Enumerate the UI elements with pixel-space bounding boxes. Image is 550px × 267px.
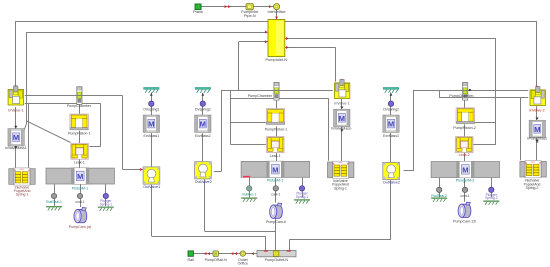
- wire y236 to outlet: [152, 236, 266, 238]
- svg-text:cont-1: cont-1: [460, 194, 469, 198]
- wire Rail to PumpORail: [193, 253, 213, 255]
- wire g3 plunger stub: [491, 178, 493, 187]
- wire OutValve2 down: [204, 179, 206, 231]
- wire group3 piston stack: [464, 100, 466, 107]
- svg-text:RodSeal-2: RodSeal-2: [431, 194, 447, 198]
- svg-text:OutValve1: OutValve1: [143, 185, 160, 189]
- mass PistonM-3 bar: [431, 161, 499, 178]
- wire inlet col3 vertical: [536, 106, 538, 120]
- valve OutValve3: [383, 162, 400, 179]
- svg-text:PumpPiston-1: PumpPiston-1: [68, 132, 91, 136]
- svg-text:InletOrifice: InletOrifice: [268, 10, 286, 14]
- svg-text:RodSeal-1: RodSeal-1: [46, 200, 62, 204]
- wire OutValve1 left stub: [123, 169, 143, 171]
- valve OutValve1: [143, 167, 160, 184]
- svg-text:Rubber-1: Rubber-1: [242, 193, 256, 197]
- arrow mass1 bottom: [14, 146, 17, 148]
- volume PumpOutlet-N: [257, 250, 296, 262]
- svg-text:PumpChamber: PumpChamber: [67, 104, 92, 108]
- wire group2 piston stack: [276, 100, 278, 108]
- wire drop x265.8: [265, 236, 267, 250]
- svg-text:OVspring2: OVspring2: [195, 108, 211, 112]
- wire chamber2 bus y90.2: [221, 90, 333, 92]
- valve InValve-3 (right, mirrored): [530, 87, 545, 106]
- mass InValveMass-3: [529, 120, 545, 137]
- wire y239.9 to outlet: [289, 239, 391, 241]
- arrow OutValve1: [150, 93, 153, 96]
- damper Rubber-1: [247, 186, 252, 191]
- piston PumpPiston-2: [266, 109, 284, 125]
- wire crossing chamber1: [76, 95, 82, 97]
- svg-text:cont-1: cont-1: [75, 200, 84, 204]
- pipe PumpORail-N: [205, 251, 228, 262]
- wire diagonal to Leak-1: [27, 121, 71, 143]
- cam PumpCam-120: [458, 202, 471, 217]
- volume PumpInlet-N: [265, 20, 287, 63]
- svg-text:Leak-1: Leak-1: [74, 160, 85, 164]
- arrow mass2 bottom: [340, 130, 343, 132]
- leak Leak-2: [267, 137, 284, 153]
- svg-text:PumpCam-ti: PumpCam-ti: [266, 220, 286, 224]
- contact cont-3: [462, 187, 467, 192]
- wire y231.5 to outlet: [205, 231, 276, 233]
- svg-text:OutValve2: OutValve2: [195, 180, 212, 184]
- wire g2 cam to outlet: [275, 218, 277, 232]
- wire vertical x495.9: [495, 39, 497, 145]
- wire g2 rod stub: [249, 178, 251, 186]
- junction dot: [469, 89, 471, 91]
- wire block right pin2: [285, 47, 336, 49]
- svg-text:PumpORail-N: PumpORail-N: [205, 258, 228, 262]
- ground g1c: [98, 207, 114, 211]
- wire vertical x335.7 to InValve-1m top: [335, 48, 337, 82]
- wire right drop to InValve-2r: [536, 21, 538, 89]
- svg-text:Spring-1: Spring-1: [16, 193, 29, 197]
- svg-text:cont-1: cont-1: [271, 193, 280, 197]
- wire g3 rod stub: [439, 178, 441, 187]
- spring PlungerSpring-3: [489, 187, 494, 192]
- wire inlet col2 vertical: [341, 99, 343, 109]
- contact cont-2: [273, 186, 278, 191]
- wire outlet col2 vertical: [202, 93, 204, 115]
- chamber PumpChamber-2: [274, 82, 279, 100]
- leak Leak-1: [71, 143, 88, 159]
- svg-text:PumpChamber: PumpChamber: [248, 94, 273, 98]
- piston PumpPiston-3: [456, 108, 474, 124]
- svg-text:Rail: Rail: [188, 258, 195, 262]
- svg-text:Spring-2: Spring-2: [485, 196, 498, 200]
- wire inlet col1 vertical: [15, 107, 17, 129]
- wire leak1 right stub: [89, 146, 100, 148]
- svg-text:InValve-2: InValve-2: [529, 108, 544, 112]
- valve OutValve2: [195, 162, 212, 179]
- wire g1 plunger stub: [105, 184, 107, 193]
- chamber PumpChamber-1: [77, 87, 82, 105]
- wire vertical x238.8: [238, 42, 240, 90]
- wire group1 lower bus y103.1: [25, 103, 101, 105]
- mass OutValve3-mass: [383, 115, 399, 132]
- svg-text:Ptank: Ptank: [193, 10, 203, 14]
- wire outlet col1 vertical: [151, 92, 153, 115]
- wire OutValve3 down: [390, 180, 392, 240]
- svg-text:PlungerM-2: PlungerM-2: [456, 179, 475, 183]
- spring PlungerSpring-2: [299, 186, 304, 191]
- cam PumpCam-b: [270, 203, 283, 218]
- wire to PumpPiston-2r right pin: [473, 122, 496, 124]
- ground g3c: [483, 201, 499, 205]
- arrow mass3 top: [536, 118, 539, 120]
- svg-text:PumpPiston-2: PumpPiston-2: [453, 126, 476, 130]
- wire g1 cont stub: [80, 184, 82, 193]
- svg-text:OVspring1: OVspring1: [143, 108, 159, 112]
- wire group1 suction bus y95.7: [25, 95, 123, 97]
- wire spring2 feed x328.3: [328, 98, 330, 161]
- wire spring1 feed x28.4: [28, 103, 30, 167]
- arrow mass2 top: [340, 107, 343, 109]
- wire to Leak-1m left pin: [231, 144, 266, 146]
- wire leak1 right loop vertical: [100, 103, 102, 147]
- wire PumpInletPipe to InletOrifice: [253, 6, 274, 8]
- svg-text:Spring-1: Spring-1: [334, 186, 347, 190]
- orifice InletOrifice: [268, 4, 286, 15]
- svg-text:PumpPiston-1: PumpPiston-1: [265, 128, 288, 132]
- svg-text:Leak-1: Leak-1: [270, 154, 281, 158]
- arrow mass1 bottom: [14, 146, 17, 148]
- svg-text:InValve-1: InValve-1: [8, 108, 23, 112]
- svg-text:Spring-1: Spring-1: [296, 195, 309, 199]
- wire chamber2 lower bus y98.2: [231, 98, 329, 100]
- wire g2 cont stub: [275, 178, 277, 186]
- wire spring3 feed x521: [520, 98, 522, 161]
- mass OutValve2-mass: [195, 115, 211, 132]
- source Rail: [188, 251, 195, 262]
- wire bus B y32 to block: [27, 32, 268, 34]
- wire g2 plunger stub: [302, 178, 304, 186]
- arrow mass1 top: [14, 126, 17, 128]
- wire PumpORail to OutletOrifice: [218, 253, 240, 255]
- wire OutValve3 right stub: [404, 170, 414, 172]
- arrow mass3 bottom: [536, 140, 539, 142]
- wire group1 piston stack: [79, 105, 81, 114]
- ground OutValve2-gnd: [195, 87, 211, 92]
- wire block pin3: [239, 41, 268, 43]
- wire vertical x122.7: [122, 96, 124, 170]
- wire Ptank to PumpInletPipe: [201, 6, 246, 8]
- svg-text:Leak-2: Leak-2: [459, 153, 470, 157]
- svg-text:ExvMass2: ExvMass2: [195, 134, 211, 138]
- svg-text:ExvMass3: ExvMass3: [383, 134, 399, 138]
- mass PistonM-2 bar: [241, 161, 309, 178]
- spring OutValve2-spring: [200, 101, 205, 106]
- svg-text:PistonM-1: PistonM-1: [72, 186, 88, 190]
- arrow mass2 top: [340, 107, 343, 109]
- spring InletValvePoppetAndSpring-1: [9, 168, 35, 185]
- svg-text:ExvMass1: ExvMass1: [143, 134, 159, 138]
- arrow mass1 top: [14, 126, 17, 128]
- pipe PumpInletPipe-N: [241, 4, 259, 19]
- wire block right pin1: [285, 38, 496, 40]
- spring OutValve1-spring: [149, 101, 154, 106]
- spring InletValvePoppetAndSpring-2: [328, 161, 354, 178]
- arrow mass2 bottom: [340, 130, 343, 132]
- chamber PumpChamber-3: [463, 82, 468, 100]
- wire chamber3 lower bus y97.6: [439, 97, 528, 99]
- wire g3 cont stub: [464, 178, 466, 187]
- wire vertical x413.5 to OutValve3: [413, 90, 415, 171]
- svg-text:PumpCam-12l: PumpCam-12l: [453, 219, 476, 223]
- orifice OutletOrifice: [238, 251, 248, 266]
- wire chamber3 bus y91: [414, 90, 529, 92]
- cam PumpCam-a: [74, 208, 87, 223]
- valve InValve-2 (middle): [334, 80, 349, 99]
- ground OutValve1-gnd: [144, 87, 160, 92]
- arrow mass3 bottom: [536, 140, 539, 142]
- svg-text:PumpInlet-N: PumpInlet-N: [265, 57, 287, 62]
- valve InValve-1: [8, 86, 23, 105]
- svg-text:PumpChamber-: PumpChamber-: [449, 94, 475, 98]
- wire OutValve2 right stub: [214, 171, 221, 173]
- red tick: [243, 176, 250, 178]
- ground g3a: [431, 198, 447, 202]
- wire to Leak-2 right pin: [473, 144, 496, 146]
- piston PumpPiston-1: [70, 114, 88, 130]
- wire InletOrifice down to PumpInlet-N: [276, 9, 278, 19]
- arrow OutValve3: [390, 93, 393, 96]
- arrow mass3 top: [536, 118, 539, 120]
- mass OutValve1-mass: [143, 115, 159, 132]
- svg-text:PumpOutlet-N: PumpOutlet-N: [265, 258, 289, 262]
- svg-text:Spring-1: Spring-1: [100, 202, 113, 206]
- mass InValveMass-2: [334, 109, 350, 126]
- wire drop x289.2: [289, 240, 291, 251]
- ground g1a: [46, 207, 62, 211]
- wire drop x275.8: [275, 232, 277, 251]
- wire top bus: [15, 21, 537, 23]
- wire vertical x230.6: [230, 90, 232, 144]
- spring OutValve3-spring: [388, 101, 393, 106]
- mass InValveMass-1: [8, 129, 24, 146]
- damper RodSeal-2: [437, 187, 442, 192]
- svg-text:InValve-1: InValve-1: [334, 102, 349, 106]
- wire outlet col3 vertical: [390, 92, 392, 115]
- wire crossing chamber3: [462, 90, 468, 92]
- svg-text:Orifice: Orifice: [238, 262, 248, 266]
- leak Leak-3: [456, 137, 473, 153]
- svg-text:Spring-2: Spring-2: [526, 186, 539, 190]
- wire g1 rod stub: [54, 184, 56, 193]
- spring PlungerSpring-1: [103, 193, 108, 198]
- wire vertical x26.7: [26, 32, 28, 123]
- svg-text:OutValve2: OutValve2: [383, 181, 400, 185]
- ground g2a: [241, 198, 257, 202]
- contact cont-1: [77, 193, 82, 198]
- wire OutletOrifice to PumpOutlet-N: [245, 253, 257, 255]
- svg-text:PumpCam-(a): PumpCam-(a): [69, 225, 92, 229]
- svg-text:Pipe-N: Pipe-N: [244, 14, 256, 18]
- mass PistonM-1 bar: [46, 168, 114, 185]
- wire OutValve1 down: [151, 185, 153, 236]
- wire to PumpPiston-1m left pin: [231, 122, 266, 124]
- wire crossing chamber2: [274, 90, 280, 92]
- wire left drop to InValve-1: [15, 21, 17, 88]
- arrow OutValve2: [201, 93, 204, 96]
- source Ptank: [193, 4, 203, 14]
- damper RodSeal-1: [51, 193, 56, 198]
- spring InletValvePoppetAndSpring-3: [520, 161, 546, 178]
- wire stub InValveMass-1 link: [24, 123, 27, 130]
- svg-text:PistonM-1: PistonM-1: [267, 178, 283, 182]
- wire vertical x221.2 to OutValve2: [221, 90, 223, 171]
- ground g2c: [294, 200, 310, 204]
- svg-text:OVspring2: OVspring2: [383, 108, 399, 112]
- wire jog x439.3: [439, 90, 441, 98]
- ground OutValve3-gnd: [383, 87, 399, 92]
